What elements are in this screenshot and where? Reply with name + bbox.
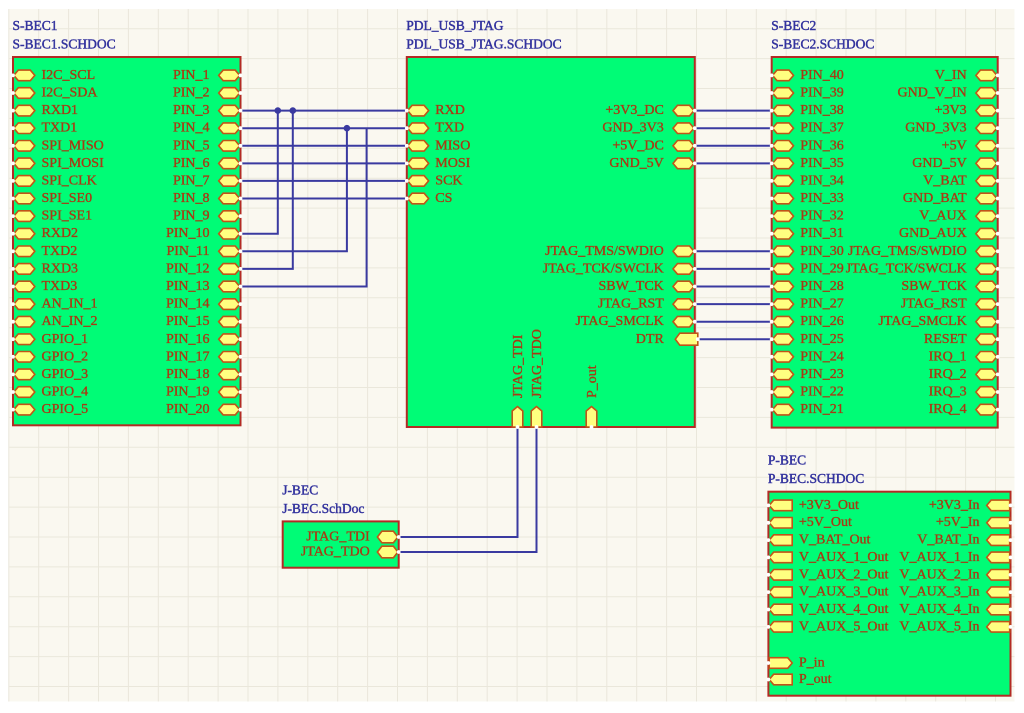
svg-text:GND_5V: GND_5V: [609, 156, 663, 171]
svg-text:GND_AUX: GND_AUX: [899, 226, 967, 241]
sheet entry SPI_CLK: [11, 173, 97, 188]
svg-text:PDL_USB_JTAG: PDL_USB_JTAG: [406, 18, 503, 33]
wire JTAG_TCK/SWCLK to PIN_29: [695, 268, 772, 270]
svg-text:PIN_17: PIN_17: [166, 349, 210, 364]
svg-text:PIN_30: PIN_30: [800, 244, 844, 259]
sheet entry V_BAT_Out: [767, 533, 871, 548]
sheet entry AN_IN_1: [11, 297, 97, 312]
sheet entry JTAG_TCK/SWCLK: [543, 261, 697, 276]
sheet entry TXD1: [11, 121, 77, 136]
sheet entry PIN_24: [770, 349, 844, 364]
sheet entry V_AUX_4_In: [899, 602, 1012, 617]
sheet entry PIN_27: [770, 297, 844, 312]
svg-text:V_AUX_1_In: V_AUX_1_In: [899, 550, 979, 565]
svg-text:PIN_27: PIN_27: [800, 297, 844, 312]
wire TXD net branch to S-BEC1 PIN_13: [241, 128, 367, 286]
sheet entry PIN_35: [770, 156, 844, 171]
svg-text:GND_V_IN: GND_V_IN: [897, 86, 966, 101]
svg-text:+3V3_DC: +3V3_DC: [605, 103, 663, 118]
svg-text:RXD3: RXD3: [42, 261, 79, 276]
sheet entry PIN_40: [770, 68, 844, 83]
sheet entry PIN_22: [770, 385, 844, 400]
sheet entry PIN_38: [770, 103, 844, 118]
sheet entry IRQ_1: [929, 349, 1000, 364]
sheet entry JTAG_TCK/SWCLK: [846, 261, 1000, 276]
wire JTAG_TDI: J-BEC to PDL: [399, 427, 518, 537]
sheet entry IRQ_4: [929, 402, 1000, 417]
svg-text:JTAG_TCK/SWCLK: JTAG_TCK/SWCLK: [543, 261, 664, 276]
sheet entry +3V3_Out: [767, 498, 860, 513]
sheet entry SPI_MOSI: [11, 156, 104, 171]
wire RXD net branch to S-BEC1 PIN_10: [241, 111, 278, 234]
sheet entry JTAG_RST: [901, 297, 1000, 312]
wire RXD net: S-BEC1 PIN_3 to PDL RXD: [241, 110, 407, 112]
sheet entry GND_V_IN: [897, 86, 999, 101]
sheet entry PIN_7: [173, 173, 242, 188]
svg-text:SPI_MOSI: SPI_MOSI: [42, 156, 105, 171]
sheet entry PIN_32: [770, 209, 844, 224]
svg-text:JTAG_TDO: JTAG_TDO: [301, 545, 370, 560]
sheet entry GND_BAT: [903, 191, 1000, 206]
svg-text:PIN_9: PIN_9: [173, 209, 210, 224]
sheet entry PIN_36: [770, 138, 844, 153]
sheet entry RXD2: [11, 226, 78, 241]
svg-text:J-BEC.SchDoc: J-BEC.SchDoc: [282, 501, 364, 516]
svg-text:V_AUX_5_Out: V_AUX_5_Out: [799, 619, 889, 634]
sheet entry RXD1: [11, 103, 78, 118]
sheet entry PIN_11: [166, 244, 242, 259]
sheet entry GND_5V: [912, 156, 999, 171]
svg-text:GND_5V: GND_5V: [912, 156, 966, 171]
svg-text:S-BEC2: S-BEC2: [771, 18, 816, 33]
sheet entry +3V3_DC: [605, 103, 696, 118]
svg-text:RXD2: RXD2: [42, 226, 79, 241]
sheet entry PIN_2: [173, 86, 242, 101]
wire GND_3V3 to PIN_37: [695, 127, 772, 129]
svg-text:GPIO_2: GPIO_2: [42, 349, 89, 364]
svg-text:PIN_20: PIN_20: [166, 402, 210, 417]
sheet symbol S-BEC2: [772, 57, 998, 428]
wire JTAG_RST to PIN_27: [695, 303, 772, 305]
svg-text:V_AUX_4_In: V_AUX_4_In: [899, 602, 979, 617]
wire TXD net branch to S-BEC1 PIN_11: [241, 128, 347, 251]
svg-text:JTAG_RST: JTAG_RST: [598, 297, 664, 312]
sheet entry +5V_DC: [612, 138, 696, 153]
svg-text:IRQ_4: IRQ_4: [929, 402, 967, 417]
svg-text:PIN_1: PIN_1: [173, 68, 210, 83]
wire DTR to PIN_25: [695, 338, 772, 340]
svg-text:JTAG_TDI: JTAG_TDI: [306, 530, 370, 545]
svg-text:TXD2: TXD2: [42, 244, 78, 259]
svg-text:PIN_22: PIN_22: [800, 385, 844, 400]
sheet entry SCK: [405, 173, 463, 188]
svg-text:IRQ_3: IRQ_3: [929, 385, 967, 400]
svg-text:TXD: TXD: [435, 121, 464, 136]
sheet entry GPIO_2: [11, 349, 88, 364]
wire TXD net: S-BEC1 PIN_4 to PDL TXD: [241, 127, 407, 129]
sheet entry PIN_18: [166, 367, 242, 382]
svg-text:PIN_15: PIN_15: [166, 314, 210, 329]
sheet entry SBW_TCK: [901, 279, 999, 294]
svg-text:JTAG_TMS/SWDIO: JTAG_TMS/SWDIO: [848, 244, 967, 259]
sheet entry +3V3_In: [929, 498, 1013, 513]
sheet entry V_IN: [935, 68, 1000, 83]
svg-text:RESET: RESET: [924, 332, 967, 347]
svg-text:SPI_MISO: SPI_MISO: [42, 138, 104, 153]
svg-text:S-BEC1: S-BEC1: [13, 18, 58, 33]
svg-text:+3V3_Out: +3V3_Out: [799, 498, 859, 513]
sheet entry PIN_20: [166, 402, 242, 417]
sheet entry JTAG_TDI: [511, 334, 526, 429]
svg-text:PIN_31: PIN_31: [800, 226, 844, 241]
sheet entry PIN_5: [173, 138, 242, 153]
svg-text:PIN_19: PIN_19: [166, 385, 210, 400]
sheet entry V_AUX_4_Out: [767, 602, 889, 617]
svg-text:PIN_39: PIN_39: [800, 86, 844, 101]
sheet entry I2C_SDA: [11, 86, 98, 101]
sheet entry JTAG_SMCLK: [575, 314, 696, 329]
sheet entry V_AUX_5_Out: [767, 619, 889, 634]
sheet symbol P-BEC: [768, 492, 1010, 696]
sheet entry SPI_SE0: [11, 191, 92, 206]
svg-text:P_out: P_out: [799, 672, 832, 687]
sheet entry PIN_8: [173, 191, 242, 206]
svg-text:RXD1: RXD1: [42, 103, 79, 118]
svg-text:PIN_13: PIN_13: [166, 279, 210, 294]
sheet entry JTAG_TMS/SWDIO: [545, 244, 697, 259]
sheet entry PIN_13: [166, 279, 242, 294]
svg-text:P_in: P_in: [799, 656, 825, 671]
sheet entry SPI_SE1: [11, 209, 92, 224]
svg-text:SPI_SE1: SPI_SE1: [42, 209, 93, 224]
svg-text:AN_IN_1: AN_IN_1: [42, 297, 98, 312]
svg-text:PIN_37: PIN_37: [800, 121, 844, 136]
sheet entry TXD: [405, 121, 464, 136]
sheet entry TXD2: [11, 244, 77, 259]
svg-text:PIN_21: PIN_21: [800, 402, 844, 417]
svg-text:MOSI: MOSI: [435, 156, 470, 171]
sheet entry PIN_10: [166, 226, 242, 241]
junction RXD net at PIN_12 branch: [290, 107, 297, 114]
sheet entry V_AUX_1_In: [899, 550, 1012, 565]
sheet entry MISO: [405, 138, 470, 153]
svg-text:P-BEC.SCHDOC: P-BEC.SCHDOC: [768, 471, 864, 486]
svg-text:V_AUX_5_In: V_AUX_5_In: [899, 619, 979, 634]
sheet entry +3V3: [935, 103, 1000, 118]
sheet entry PIN_23: [770, 367, 844, 382]
svg-text:S-BEC2.SCHDOC: S-BEC2.SCHDOC: [771, 36, 874, 51]
svg-text:PIN_8: PIN_8: [173, 191, 210, 206]
sheet entry GPIO_3: [11, 367, 88, 382]
sheet entry +5V: [942, 138, 1000, 153]
svg-text:PIN_35: PIN_35: [800, 156, 844, 171]
svg-text:S-BEC1.SCHDOC: S-BEC1.SCHDOC: [13, 36, 116, 51]
sheet entry GND_AUX: [899, 226, 1000, 241]
wire SBW_TCK to PIN_28: [695, 286, 772, 288]
wire JTAG_TMS/SWDIO to PIN_30: [695, 250, 772, 252]
sheet symbol PDL_USB_JTAG: [407, 57, 695, 427]
sheet entry RXD3: [11, 261, 78, 276]
svg-text:GPIO_5: GPIO_5: [42, 402, 89, 417]
svg-text:PIN_32: PIN_32: [800, 209, 844, 224]
sheet entry P_out: [585, 365, 600, 429]
sheet entry JTAG_SMCLK: [878, 314, 999, 329]
svg-text:PIN_24: PIN_24: [800, 349, 844, 364]
svg-text:SPI_SE0: SPI_SE0: [42, 191, 93, 206]
svg-text:GND_3V3: GND_3V3: [602, 121, 663, 136]
sheet entry CS: [405, 191, 453, 206]
sheet entry PIN_26: [770, 314, 844, 329]
sheet entry PIN_34: [770, 173, 844, 188]
svg-text:PIN_12: PIN_12: [166, 261, 210, 276]
sheet entry RESET: [924, 332, 1000, 347]
svg-text:JTAG_RST: JTAG_RST: [901, 297, 967, 312]
sheet entry PIN_17: [166, 349, 242, 364]
sheet entry PIN_6: [173, 156, 242, 171]
sheet entry GPIO_5: [11, 402, 88, 417]
svg-text:+5V: +5V: [942, 138, 967, 153]
wire +5V_DC to PIN_36: [695, 145, 772, 147]
sheet entry PIN_33: [770, 191, 844, 206]
wire SCK net: S-BEC1 PIN_7 to PDL SCK: [241, 180, 407, 182]
svg-text:PIN_23: PIN_23: [800, 367, 844, 382]
svg-text:GPIO_4: GPIO_4: [42, 385, 89, 400]
sheet entry GPIO_4: [11, 385, 88, 400]
svg-text:GPIO_1: GPIO_1: [42, 332, 89, 347]
sheet entry GND_3V3: [905, 121, 999, 136]
svg-text:SPI_CLK: SPI_CLK: [42, 173, 97, 188]
svg-text:PIN_3: PIN_3: [173, 103, 210, 118]
sheet entry I2C_SCL: [11, 68, 95, 83]
sheet entry JTAG_TDI: [306, 530, 400, 545]
sheet entry PIN_31: [770, 226, 844, 241]
svg-text:GND_3V3: GND_3V3: [905, 121, 966, 136]
sheet entry V_AUX_1_Out: [767, 550, 889, 565]
sheet entry TXD3: [11, 279, 77, 294]
svg-text:AN_IN_2: AN_IN_2: [42, 314, 98, 329]
sheet entry PIN_28: [770, 279, 844, 294]
svg-text:IRQ_2: IRQ_2: [929, 367, 967, 382]
sheet entry PIN_1: [173, 68, 242, 83]
svg-text:V_BAT_In: V_BAT_In: [917, 533, 979, 548]
sheet entry V_AUX: [919, 209, 999, 224]
svg-text:V_AUX_4_Out: V_AUX_4_Out: [799, 602, 889, 617]
svg-text:JTAG_SMCLK: JTAG_SMCLK: [878, 314, 966, 329]
sheet entry PIN_21: [770, 402, 844, 417]
sheet entry JTAG_TMS/SWDIO: [848, 244, 1000, 259]
svg-text:PIN_29: PIN_29: [800, 261, 844, 276]
svg-text:SBW_TCK: SBW_TCK: [598, 279, 663, 294]
svg-text:PIN_34: PIN_34: [800, 173, 844, 188]
sheet entry V_AUX_2_Out: [767, 567, 889, 582]
svg-text:IRQ_1: IRQ_1: [929, 349, 967, 364]
svg-text:V_BAT: V_BAT: [923, 173, 967, 188]
svg-text:SBW_TCK: SBW_TCK: [901, 279, 966, 294]
svg-text:GPIO_3: GPIO_3: [42, 367, 89, 382]
sheet entry GND_3V3: [602, 121, 696, 136]
svg-text:PDL_USB_JTAG.SCHDOC: PDL_USB_JTAG.SCHDOC: [406, 36, 561, 51]
sheet entry V_BAT_In: [917, 533, 1012, 548]
svg-text:+5V_DC: +5V_DC: [612, 138, 663, 153]
svg-text:JTAG_TDI: JTAG_TDI: [511, 334, 526, 398]
sheet entry PIN_30: [770, 244, 844, 259]
svg-text:MISO: MISO: [435, 138, 470, 153]
wire GND_5V to PIN_35: [695, 162, 772, 164]
svg-text:P-BEC: P-BEC: [768, 453, 806, 468]
svg-text:PIN_2: PIN_2: [173, 86, 210, 101]
sheet entry PIN_9: [173, 209, 242, 224]
sheet entry SPI_MISO: [11, 138, 104, 153]
sheet entry PIN_25: [770, 332, 844, 347]
sheet entry DTR: [636, 332, 700, 347]
junction RXD net at PIN_10 branch: [275, 107, 282, 114]
svg-text:PIN_25: PIN_25: [800, 332, 844, 347]
svg-text:SCK: SCK: [435, 173, 462, 188]
sheet entry IRQ_2: [929, 367, 1000, 382]
svg-text:RXD: RXD: [435, 103, 465, 118]
svg-text:PIN_38: PIN_38: [800, 103, 844, 118]
svg-text:+3V3: +3V3: [935, 103, 967, 118]
svg-text:CS: CS: [435, 191, 452, 206]
svg-text:V_AUX_2_Out: V_AUX_2_Out: [799, 567, 889, 582]
sheet entry V_AUX_5_In: [899, 619, 1012, 634]
sheet entry PIN_15: [166, 314, 242, 329]
svg-text:TXD1: TXD1: [42, 121, 78, 136]
svg-text:PIN_11: PIN_11: [166, 244, 209, 259]
sheet entry V_AUX_3_In: [899, 585, 1012, 600]
sheet entry V_AUX_2_In: [899, 567, 1012, 582]
sheet entry JTAG_TDO: [530, 329, 545, 429]
svg-text:PIN_14: PIN_14: [166, 297, 210, 312]
sheet entry JTAG_TDO: [301, 545, 401, 560]
svg-text:+3V3_In: +3V3_In: [929, 498, 980, 513]
wire JTAG_SMCLK to PIN_26: [695, 321, 772, 323]
wire +3V3_DC to PIN_38: [695, 110, 772, 112]
wire JTAG_TDO: J-BEC to PDL: [399, 427, 537, 552]
sheet entry +5V_In: [936, 515, 1013, 530]
sheet entry RXD: [405, 103, 465, 118]
svg-text:PIN_10: PIN_10: [166, 226, 210, 241]
svg-text:PIN_33: PIN_33: [800, 191, 844, 206]
svg-text:V_BAT_Out: V_BAT_Out: [799, 533, 871, 548]
svg-text:P_out: P_out: [585, 365, 600, 398]
svg-text:I2C_SCL: I2C_SCL: [42, 68, 96, 83]
svg-text:PIN_26: PIN_26: [800, 314, 844, 329]
svg-text:JTAG_SMCLK: JTAG_SMCLK: [575, 314, 663, 329]
sheet entry PIN_16: [166, 332, 242, 347]
svg-text:PIN_6: PIN_6: [173, 156, 210, 171]
svg-text:V_AUX_1_Out: V_AUX_1_Out: [799, 550, 889, 565]
sheet entry PIN_3: [173, 103, 242, 118]
sheet entry GND_5V: [609, 156, 696, 171]
sheet entry AN_IN_2: [11, 314, 97, 329]
sheet entry SBW_TCK: [598, 279, 696, 294]
svg-text:DTR: DTR: [636, 332, 665, 347]
sheet symbol J-BEC: [283, 521, 399, 567]
svg-text:JTAG_TMS/SWDIO: JTAG_TMS/SWDIO: [545, 244, 664, 259]
svg-text:GND_BAT: GND_BAT: [903, 191, 967, 206]
sheet entry PIN_19: [166, 385, 242, 400]
sheet entry PIN_37: [770, 121, 844, 136]
wire MISO net: S-BEC1 PIN_5 to PDL MISO: [241, 145, 407, 147]
sheet entry V_BAT: [923, 173, 999, 188]
sheet entry PIN_4: [173, 121, 242, 136]
wire RXD net branch to S-BEC1 PIN_12: [241, 111, 293, 269]
svg-text:V_AUX_3_In: V_AUX_3_In: [899, 585, 979, 600]
sheet entry P_in: [767, 656, 825, 671]
sheet entry V_AUX_3_Out: [767, 585, 889, 600]
svg-text:+5V_Out: +5V_Out: [799, 515, 852, 530]
wire CS net: S-BEC1 PIN_8 to PDL CS: [241, 198, 407, 200]
svg-text:PIN_5: PIN_5: [173, 138, 210, 153]
sheet entry GPIO_1: [11, 332, 88, 347]
svg-text:+5V_In: +5V_In: [936, 515, 980, 530]
svg-text:TXD3: TXD3: [42, 279, 78, 294]
svg-text:V_IN: V_IN: [935, 68, 967, 83]
svg-text:V_AUX: V_AUX: [919, 209, 966, 224]
svg-text:I2C_SDA: I2C_SDA: [42, 86, 99, 101]
wire MOSI net: S-BEC1 PIN_6 to PDL MOSI: [241, 162, 407, 164]
svg-text:V_AUX_3_Out: V_AUX_3_Out: [799, 585, 889, 600]
svg-text:PIN_16: PIN_16: [166, 332, 210, 347]
svg-text:PIN_40: PIN_40: [800, 68, 844, 83]
svg-text:JTAG_TCK/SWCLK: JTAG_TCK/SWCLK: [846, 261, 967, 276]
sheet entry PIN_12: [166, 261, 242, 276]
sheet entry MOSI: [405, 156, 471, 171]
svg-text:PIN_28: PIN_28: [800, 279, 844, 294]
svg-text:PIN_4: PIN_4: [173, 121, 210, 136]
svg-text:J-BEC: J-BEC: [282, 482, 318, 497]
sheet entry PIN_29: [770, 261, 844, 276]
svg-text:JTAG_TDO: JTAG_TDO: [530, 329, 545, 398]
svg-text:V_AUX_2_In: V_AUX_2_In: [899, 567, 979, 582]
junction TXD net at PIN_11 branch: [344, 125, 351, 132]
sheet entry +5V_Out: [767, 515, 853, 530]
sheet entry JTAG_RST: [598, 297, 697, 312]
svg-text:PIN_18: PIN_18: [166, 367, 210, 382]
sheet symbol S-BEC1: [13, 57, 241, 425]
sheet entry IRQ_3: [929, 385, 1000, 400]
svg-text:PIN_7: PIN_7: [173, 173, 210, 188]
sheet entry PIN_14: [166, 297, 242, 312]
svg-text:PIN_36: PIN_36: [800, 138, 844, 153]
sheet entry P_out: [767, 672, 832, 687]
sheet entry PIN_39: [770, 86, 844, 101]
